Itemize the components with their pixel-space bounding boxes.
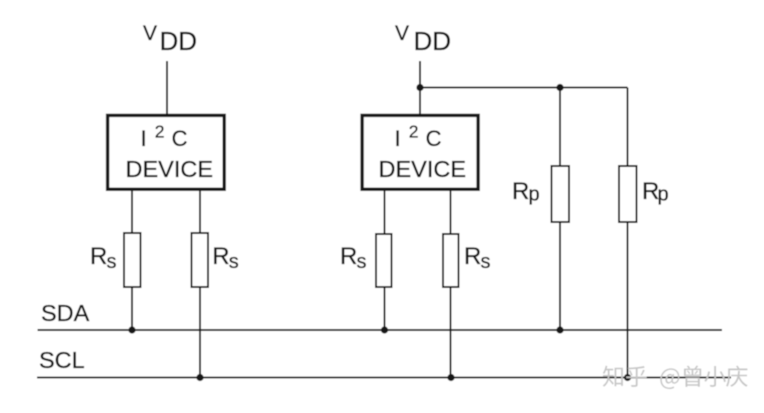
watermark 知乎 @曾小庆 [603, 366, 748, 390]
junction Rs2/SCL [196, 374, 203, 381]
svg-text:2: 2 [155, 122, 165, 142]
junction Rs4/SCL [447, 374, 454, 381]
wire VDD2 to device 2 [419, 61, 421, 114]
junction VDD rail at Rp1 [556, 84, 563, 91]
net SDA bus line [38, 300, 723, 330]
svg-text:R: R [512, 178, 529, 205]
svg-text:p: p [529, 184, 540, 206]
svg-text:p: p [658, 184, 669, 206]
node VDD (device 1 supply label) [143, 22, 197, 56]
svg-text:DD: DD [160, 26, 198, 56]
node VDD (device 2 supply label) [395, 22, 451, 56]
junction Rs1/SDA [128, 326, 135, 333]
svg-text:R: R [464, 243, 481, 270]
wire VDD rail to pull-ups [420, 87, 628, 89]
wire device 1 right lead [199, 189, 201, 233]
svg-text:DEVICE: DEVICE [126, 156, 214, 182]
wire Rs1 to SDA [131, 287, 133, 330]
wire Rs4 to SCL [450, 287, 452, 378]
svg-text:V: V [143, 22, 157, 45]
svg-text:R: R [212, 243, 229, 270]
I2C device U1 [108, 115, 225, 189]
junction Rp2/SCL [624, 374, 631, 381]
wire Rs3 to SDA [384, 287, 386, 330]
svg-text:DEVICE: DEVICE [379, 156, 467, 182]
resistor Rs4 (device 2, SCL) [443, 234, 491, 287]
svg-text:s: s [107, 251, 117, 273]
wire device 2 left lead [384, 189, 386, 234]
svg-text:s: s [357, 251, 367, 273]
wire Rs2 to SCL [199, 287, 201, 378]
svg-text:2: 2 [409, 122, 419, 142]
resistor Rp2 (pull-up, SCL) [619, 88, 669, 379]
svg-text:I: I [141, 126, 147, 151]
resistor Rp1 (pull-up, SDA) [512, 88, 569, 331]
svg-text:C: C [426, 126, 442, 151]
svg-text:V: V [395, 22, 409, 45]
wire device 1 left lead [131, 189, 133, 233]
wire device 2 right lead [450, 189, 452, 234]
svg-text:SDA: SDA [41, 300, 90, 326]
svg-text:s: s [481, 251, 491, 273]
svg-text:R: R [340, 243, 357, 270]
resistor Rs1 (device 1, SDA) [90, 233, 141, 287]
svg-text:s: s [229, 251, 239, 273]
junction VDD rail at device 2 wire [416, 84, 423, 91]
I2C device U2 [362, 115, 478, 189]
svg-text:C: C [172, 126, 188, 151]
svg-text:R: R [90, 243, 107, 270]
wire VDD1 to device 1 [166, 61, 168, 115]
svg-text:SCL: SCL [39, 347, 85, 373]
svg-text:DD: DD [414, 26, 452, 56]
junction Rp1/SDA [556, 326, 563, 333]
junction Rs3/SDA [381, 326, 388, 333]
svg-text:I: I [395, 126, 401, 151]
net SCL bus line [37, 347, 731, 378]
resistor Rs2 (device 1, SCL) [192, 233, 239, 287]
resistor Rs3 (device 2, SDA) [340, 234, 392, 287]
